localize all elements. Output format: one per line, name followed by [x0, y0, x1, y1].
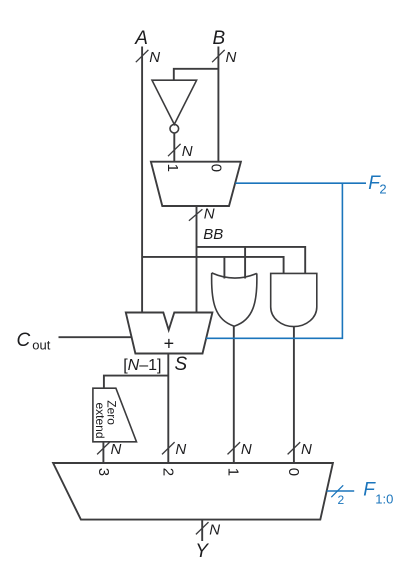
svg-text:+: + — [164, 334, 175, 354]
svg-text:extend: extend — [93, 403, 107, 439]
mux M1 (2:1 B/notB select) — [151, 162, 241, 206]
wire BB rail to OR gate right input — [244, 247, 246, 279]
bus slash F1:0 width 2 (blue) — [331, 485, 344, 507]
svg-text:N: N — [241, 441, 252, 458]
svg-text:0: 0 — [285, 468, 302, 476]
AND gate G2 — [271, 273, 317, 326]
bus slash mux input 1 with width N — [228, 441, 252, 458]
wire Cout — [59, 336, 132, 338]
svg-text:0: 0 — [207, 164, 224, 172]
svg-text:2: 2 — [379, 181, 386, 196]
bus slash B with width N — [212, 49, 236, 66]
wire A branch to gates (lower rail) — [142, 257, 284, 274]
wire A rail to OR gate left input — [223, 257, 225, 279]
wire zero extend output — [102, 442, 104, 463]
OR gate G1 — [212, 273, 257, 326]
wire inverter output to mux — [173, 133, 175, 162]
bus slash mux input 0 with width N — [288, 441, 312, 458]
svg-text:B: B — [213, 28, 226, 49]
wire AND gate output to mux input 0 — [293, 327, 295, 464]
mux M2 (4:1 result select) — [53, 463, 333, 520]
bus slash inverter output with width N — [168, 143, 193, 160]
wire BB branch to gates (upper rail) — [197, 247, 306, 274]
bus slash mux input 2 with width N — [162, 441, 186, 458]
node Cout label — [17, 330, 51, 352]
adder U1 — [126, 313, 213, 354]
zero extend unit U2 — [93, 388, 137, 442]
bus slash BB with width N — [189, 206, 215, 223]
svg-text:2: 2 — [338, 493, 345, 507]
svg-text:3: 3 — [95, 468, 112, 476]
svg-text:N: N — [182, 143, 193, 160]
wire B vertical — [217, 47, 219, 162]
node F2 label — [368, 173, 386, 196]
wire S[N-1] to zero extend — [104, 376, 168, 389]
svg-text:BB: BB — [203, 226, 223, 243]
bus slash mux input 3 with width N — [97, 441, 121, 458]
svg-text:N: N — [209, 522, 220, 539]
svg-text:1: 1 — [164, 164, 181, 172]
bus slash Y with width N — [196, 522, 220, 539]
svg-text:N: N — [175, 441, 186, 458]
wire F2 select (blue) from mux M1 to label — [235, 182, 366, 184]
wire F1:0 select (blue) — [327, 490, 355, 492]
svg-text:A: A — [134, 28, 148, 49]
svg-text:N: N — [149, 49, 160, 66]
node F1:0 label — [363, 480, 393, 507]
inverter (NOT gate) — [152, 80, 197, 133]
wire OR gate output to mux input 1 — [233, 326, 235, 463]
svg-text:N: N — [301, 441, 312, 458]
svg-text:[N–1]: [N–1] — [123, 357, 161, 374]
svg-text:out: out — [32, 337, 50, 352]
svg-text:N: N — [111, 441, 122, 458]
svg-text:C: C — [17, 330, 31, 351]
svg-text:Y: Y — [195, 541, 209, 562]
wire S (adder sum output) — [167, 354, 169, 463]
svg-text:2: 2 — [160, 468, 177, 476]
wire Y output — [201, 520, 203, 541]
svg-text:1:0: 1:0 — [375, 491, 393, 506]
wire B to inverter input — [174, 69, 219, 80]
wire F2 down to adder carry-in (blue) — [206, 183, 342, 338]
svg-text:N: N — [204, 206, 215, 223]
svg-text:N: N — [226, 49, 237, 66]
svg-text:S: S — [175, 354, 188, 375]
bus slash A with width N — [136, 49, 160, 66]
wire A vertical — [141, 47, 143, 313]
svg-text:1: 1 — [225, 468, 242, 476]
wire BB (mux M1 output) — [196, 206, 198, 313]
